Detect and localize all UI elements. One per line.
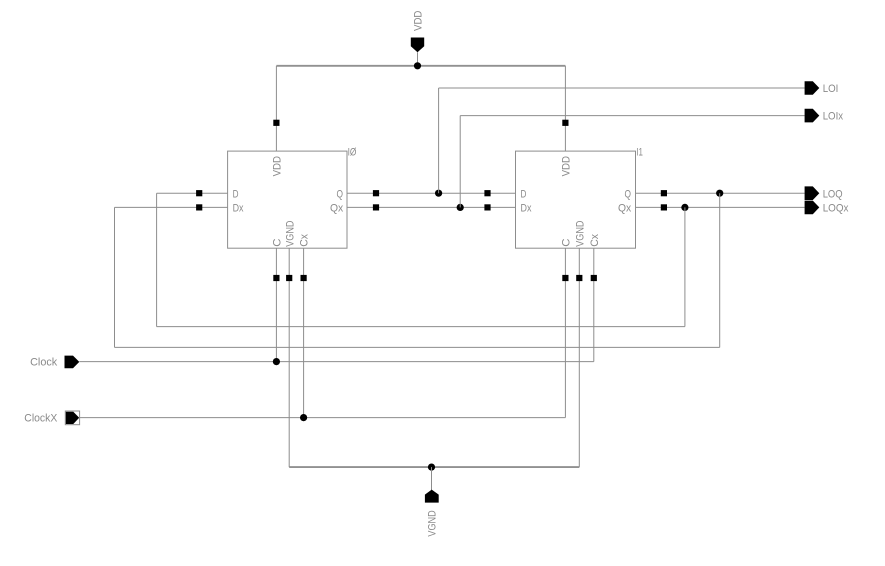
- port ClockX arrow: [66, 412, 79, 424]
- svg-text:ClockX: ClockX: [24, 413, 57, 425]
- svg-text:LOIx: LOIx: [823, 111, 844, 123]
- power symbol VDD: [411, 38, 424, 53]
- svg-text:Qx: Qx: [330, 203, 343, 215]
- wire net LOQx: I1.Qx output: [636, 206, 805, 208]
- wire feedback I1.Qx to I0.D horizontal: [157, 326, 685, 328]
- svg-text:VDD: VDD: [272, 156, 284, 176]
- wire net LOIx: [460, 115, 805, 117]
- pin connection I0.VDD: [273, 120, 279, 126]
- junction VGND rail: [428, 464, 435, 471]
- junction VDD rail: [414, 62, 421, 69]
- pin connection I1.Qx: [661, 204, 667, 210]
- wire LOIx riser: [459, 116, 461, 208]
- wire I0.C drop: [275, 248, 277, 361]
- svg-text:Cx: Cx: [299, 234, 311, 247]
- svg-text:C: C: [561, 239, 573, 247]
- wire I0.Cx drop: [303, 248, 305, 417]
- port LOQx: [805, 201, 820, 215]
- junction net LOQx / feedback: [681, 204, 688, 211]
- wire feedback riser to I0.D: [156, 193, 158, 326]
- junction net LOQ / feedback: [716, 190, 723, 197]
- pin connection I1.Cx: [591, 275, 597, 281]
- pin connection I1.VDD: [562, 120, 568, 126]
- wire I0.D input: [157, 192, 228, 194]
- svg-text:Q: Q: [625, 188, 632, 200]
- pin connection I0.Dx: [196, 204, 202, 210]
- pin connection I1.VGND: [576, 275, 582, 281]
- pin connection I0.VGND: [286, 275, 292, 281]
- wire VDD rail: [276, 65, 565, 67]
- svg-text:D: D: [233, 188, 239, 200]
- wire feedback riser to I0.Dx: [114, 207, 116, 347]
- wire feedback I1.Qx to I0.D drop: [684, 207, 686, 326]
- svg-text:Dx: Dx: [233, 203, 244, 215]
- pin connection I0.Qx: [373, 204, 379, 210]
- svg-text:VDD: VDD: [561, 156, 573, 176]
- wire VGND symbol stub: [431, 467, 433, 490]
- pin connection I0.Q: [373, 190, 379, 196]
- port Clock: [65, 356, 80, 369]
- svg-text:LOQ: LOQ: [823, 188, 843, 200]
- junction ClockX / I0.Cx: [300, 414, 307, 421]
- wire I0.Dx input: [115, 206, 228, 208]
- pin connection I1.D: [484, 190, 490, 196]
- svg-text:Dx: Dx: [521, 203, 532, 215]
- wire VDD symbol stub: [417, 52, 419, 66]
- svg-text:C: C: [272, 239, 284, 247]
- wire net LOI: [439, 87, 805, 89]
- svg-text:Q: Q: [337, 188, 344, 200]
- wire VGND rail: [289, 466, 579, 468]
- wire I0.VGND drop: [288, 248, 290, 467]
- wire net ClockX: [80, 417, 566, 419]
- svg-text:Qx: Qx: [618, 203, 631, 215]
- port LOIx: [805, 109, 820, 123]
- wire net Q: I0.Q to I1.D: [347, 192, 516, 194]
- port ClockX outline: [65, 411, 79, 425]
- pin connection I1.C: [562, 275, 568, 281]
- wire I1.C drop: [564, 248, 566, 417]
- svg-text:Cx: Cx: [589, 234, 601, 247]
- pin connection I0.C: [273, 275, 279, 281]
- svg-text:VDD: VDD: [413, 11, 425, 31]
- pin connection I1.Dx: [484, 204, 490, 210]
- flip-flop I0 body: [228, 151, 347, 248]
- svg-text:IØ: IØ: [348, 146, 357, 158]
- svg-text:D: D: [521, 188, 527, 200]
- wire feedback I1.Q to I0.Dx drop: [719, 193, 721, 347]
- wire net Qx: I0.Qx to I1.Dx: [347, 206, 516, 208]
- svg-text:I1: I1: [636, 146, 643, 158]
- wire net LOQ: I1.Q output: [636, 192, 805, 194]
- svg-text:LOQx: LOQx: [823, 203, 849, 215]
- wire I1 VDD pin riser: [564, 66, 566, 151]
- wire I1.Cx drop: [593, 248, 595, 361]
- port LOQ: [805, 186, 820, 200]
- flip-flop I1 body: [516, 151, 636, 248]
- svg-text:VGND: VGND: [284, 221, 296, 247]
- svg-text:Clock: Clock: [30, 356, 57, 368]
- pin connection I0.D: [196, 190, 202, 196]
- pin connection I0.Cx: [301, 275, 307, 281]
- wire I1.VGND drop: [578, 248, 580, 467]
- junction net Q / LOI riser: [435, 190, 442, 197]
- wire LOI riser: [438, 88, 440, 193]
- svg-text:VGND: VGND: [574, 221, 586, 247]
- pin connection I1.Q: [661, 190, 667, 196]
- wire net Clock: [79, 361, 594, 363]
- svg-text:LOI: LOI: [823, 83, 839, 95]
- wire I0 VDD pin riser: [275, 66, 277, 151]
- port LOI: [805, 81, 820, 95]
- svg-text:VGND: VGND: [427, 510, 439, 536]
- ground symbol VGND: [425, 490, 439, 503]
- junction Clock / I0.C: [273, 358, 280, 365]
- wire feedback I1.Q to I0.Dx horizontal: [115, 346, 720, 348]
- junction net Qx / LOIx riser: [457, 204, 464, 211]
